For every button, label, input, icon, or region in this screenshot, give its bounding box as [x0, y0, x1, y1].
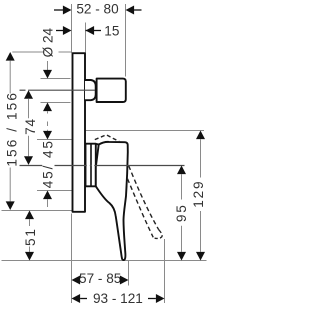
svg-text:52 - 80: 52 - 80	[76, 2, 119, 17]
ext line dashed handle top (y=130.5)	[85, 130, 204, 132]
dim 52-80 right arrow	[134, 9, 142, 11]
dim 129 line and arrows	[196, 131, 205, 140]
dashed lever blade (open position) upper edge	[129, 166, 159, 230]
dim 45-45 bottom arrow	[43, 191, 52, 200]
ext line nipple end top (x=125.5)	[125, 4, 127, 77]
wall plate (escutcheon, side view)	[73, 53, 86, 212]
svg-text:15: 15	[104, 23, 119, 38]
hub inner edge	[90, 145, 92, 186]
handle hub / rosette	[86, 144, 96, 187]
svg-text:51: 51	[23, 227, 38, 246]
dim 52-80 left arrow	[54, 9, 64, 11]
ext line diam24 top (y=78.5)	[41, 78, 71, 80]
svg-text:Ø 24: Ø 24	[41, 27, 56, 57]
dim x47.5 mid dash	[47, 122, 49, 127]
ext line plate bottom face (y=210.5)	[2, 210, 73, 212]
ext line wall face top (x=71.5)	[71, 4, 73, 53]
ext line plate rear top (x=85.5)	[85, 23, 87, 54]
dim 74 bottom arrow (shared with 45-45 top)	[47, 130, 49, 131]
dim 95 line and arrows	[177, 166, 186, 175]
lever handle (closed position)	[96, 142, 128, 260]
svg-text:95: 95	[174, 203, 189, 222]
dim 51 line and arrows	[25, 211, 34, 220]
supply nipple neck	[85, 80, 96, 100]
svg-text:45/ 45: 45/ 45	[41, 139, 56, 188]
ext line dashed lever tip bottom (x=164.5)	[164, 239, 166, 303]
dim 74 line and arrows	[24, 90, 33, 99]
hub top edge extension	[96, 143, 99, 145]
svg-text:57 - 85: 57 - 85	[79, 271, 121, 286]
supply nipple cylinder (diam 24)	[97, 79, 126, 102]
ext line plate top face (y=52) left part	[12, 51, 44, 53]
technical dimension drawing: concealed single-lever bath/shower mixer, side view	[0, 0, 210, 309]
axis centre line of supply nipple (y=90.2)	[20, 89, 26, 91]
ext line lever lowest point (y=260.5)	[2, 260, 207, 262]
dim d24 top arrow	[47, 61, 49, 71]
svg-text:129: 129	[191, 180, 206, 208]
dim 15 right arrow	[86, 30, 102, 32]
ext line wall face bottom (x=71.5)	[71, 214, 73, 304]
svg-text:93 - 121: 93 - 121	[93, 291, 143, 306]
ext line 74 bottom / 45-45 top (y=139.5)	[37, 139, 72, 141]
dashed handle cap (open position)	[95, 135, 120, 142]
svg-text:74: 74	[23, 118, 38, 135]
dim d24 bottom arrow (shared with 74 top)	[43, 103, 52, 112]
ext line lever tip bottom (x=128.5)	[128, 261, 130, 286]
ext line diam24 bottom (y=102.5)	[41, 102, 71, 104]
dim 15 left arrow	[56, 30, 64, 32]
dashed lever tip end cap	[155, 230, 162, 239]
axis centre line of valve/handle (y=165.5)	[20, 165, 43, 167]
dashed lever blade (open position) lower edge	[128, 179, 154, 238]
ext line 45-45 bottom (y=190.5)	[37, 190, 72, 192]
svg-text:156 / 156: 156 / 156	[4, 91, 19, 167]
dim 156 line and arrows	[6, 52, 15, 61]
ext line plate top face (y=52) right part	[59, 51, 73, 53]
